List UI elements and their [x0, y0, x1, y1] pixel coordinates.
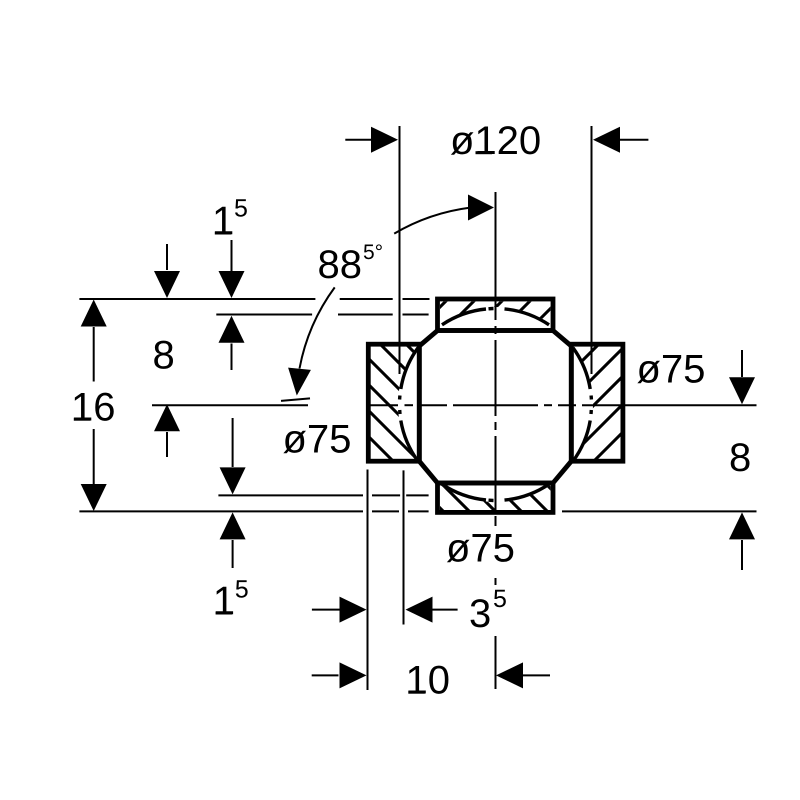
88.5deg arrowhead at vertical centerline: [468, 195, 494, 221]
ball tangent extension line right (o120): [591, 126, 593, 374]
dimension 10 arrows: [312, 674, 339, 676]
top socket: [438, 299, 554, 331]
line L2 (1.5 offset): [216, 314, 312, 316]
bottom edge extension line L5: [79, 510, 363, 512]
dimension 8 left arrows: [166, 244, 168, 270]
ball arc in left socket: [401, 348, 418, 389]
vertical centerline (dash-dot): [495, 192, 497, 320]
dimension o120 arrows: [345, 139, 372, 141]
line L4 (1.5 offset bottom): [218, 494, 363, 496]
label 1.5 top: [215, 207, 232, 235]
label o75 bottom: [447, 534, 513, 562]
bottom socket: [438, 483, 554, 512]
label 10: [409, 666, 449, 694]
label 88.5deg: [319, 250, 360, 278]
label 16: [74, 393, 114, 421]
dimension 16 arrows: [81, 300, 107, 327]
label o75 right: [637, 355, 703, 383]
label o120: [451, 126, 540, 155]
label 3.5: [471, 599, 490, 627]
dimension 1.5 top arrows: [231, 240, 233, 271]
top edge extension line L1: [79, 298, 315, 300]
ball arc in right socket: [573, 348, 590, 389]
ball arc in top socket: [442, 309, 486, 325]
88.5deg leader arc lower piece: [300, 287, 335, 368]
label 8 left: [154, 341, 173, 369]
left socket edge extension line: [367, 470, 369, 691]
ball tangent extension line left (o120): [399, 126, 401, 374]
88.5deg leader arc upper piece: [394, 208, 470, 234]
label 1.5 bottom: [216, 587, 233, 615]
right socket: [571, 344, 623, 461]
dimension 1.5 bottom arrows: [232, 418, 234, 467]
dimension 8 right arrows: [741, 350, 743, 377]
dimension 3.5 arrows: [312, 609, 340, 611]
label o75 left: [283, 425, 349, 453]
horizontal centerline (dash-dot): [152, 404, 308, 406]
fitting body octagon: [419, 331, 571, 484]
label 8 right: [731, 443, 750, 471]
ball arc in bottom socket: [442, 484, 486, 500]
extension line for 3.5 dim: [403, 470, 405, 624]
left socket: [368, 344, 419, 461]
88.5deg arrowhead at tilted axis: [288, 368, 311, 396]
tilted 88.5deg axis tick: [281, 398, 310, 401]
